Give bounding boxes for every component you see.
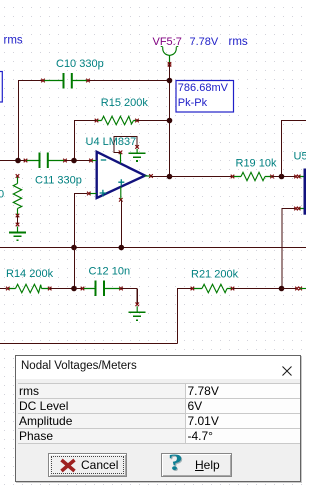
svg-text:R19 10k: R19 10k: [236, 158, 277, 170]
probe reading 7.78V rms: [190, 36, 248, 48]
dialog close button: [282, 364, 293, 382]
wire op-amp output to node: [151, 176, 170, 178]
clipped blue box at left edge: [0, 72, 2, 103]
wire R21 to U5 plus node: [233, 288, 282, 290]
capacitor C11: [24, 153, 82, 187]
svg-text:786.68mV: 786.68mV: [178, 82, 229, 94]
wire U5 plus input: [282, 209, 296, 289]
wire left stub to node A: [0, 160, 18, 162]
help button: [161, 453, 232, 477]
wire R14 to plus node: [50, 288, 74, 290]
wire node A to C11: [18, 160, 25, 162]
wire R19 to U5 minus node: [272, 176, 295, 178]
junction node U5 minus: [279, 174, 285, 180]
junction node output: [167, 174, 173, 180]
svg-text:R15 200k: R15 200k: [101, 97, 149, 109]
wire minus node to op-amp: [74, 160, 91, 162]
dialog title bar: [16, 356, 300, 379]
wire probe vertical: [169, 63, 171, 176]
svg-text:rms: rms: [229, 36, 248, 48]
svg-text:U5: U5: [294, 151, 307, 163]
svg-text:Pk-Pk: Pk-Pk: [178, 97, 208, 109]
junction node A: [15, 158, 21, 164]
ground (op-amp power): [129, 145, 146, 161]
wire to C10 left: [18, 80, 43, 82]
wire output node to R19: [170, 176, 233, 178]
probe hook: [161, 46, 178, 62]
measurement box 786.68mV Pk-Pk: [176, 81, 234, 113]
op-amp U4 pin stubs: [89, 153, 151, 200]
resistor R15: [95, 97, 149, 125]
wire horizontal bus: [0, 247, 306, 249]
wire feedback vertical: [282, 121, 307, 177]
probe pin x marks: [168, 62, 172, 66]
wire R15 left to node: [74, 121, 96, 161]
dialog Nodal Voltages/Meters: [15, 355, 301, 482]
svg-text:rms: rms: [4, 35, 23, 47]
resistor R19: [231, 158, 277, 181]
junction bus/plus-input: [71, 245, 77, 251]
dialog table: [18, 383, 300, 444]
wire resistor to ground: [17, 216, 19, 225]
label rms (top left): [4, 35, 23, 47]
svg-text:7.78V: 7.78V: [190, 36, 219, 48]
op-amp U5 (clipped): [294, 151, 308, 215]
op-amp U4: [86, 136, 146, 198]
wire left vertical: [18, 80, 20, 160]
wire C10 right to probe node: [88, 80, 170, 82]
resistor R21: [191, 269, 239, 293]
junction bus/power: [119, 245, 125, 251]
capacitor C12: [74, 266, 130, 297]
svg-text:U4 LM837: U4 LM837: [86, 136, 137, 148]
svg-text:R21 200k: R21 200k: [191, 269, 239, 281]
op-amp pin x marks: [87, 151, 153, 202]
ground (C12): [129, 303, 146, 321]
svg-text:C11 330p: C11 330p: [35, 175, 82, 187]
probe label VF5:7: [153, 36, 182, 48]
ground (left): [9, 223, 26, 241]
wire R15 right to probe vertical: [137, 120, 170, 122]
wire C12 to ground: [121, 289, 137, 305]
svg-text:0: 0: [0, 189, 4, 201]
wire R21 feed from left: [0, 288, 192, 344]
junction node U5 plus: [279, 286, 285, 292]
svg-text:C10 330p: C10 330p: [56, 58, 104, 70]
capacitor C10: [41, 58, 104, 89]
resistor R? vertical (clipped label 0): [0, 174, 22, 217]
svg-text:C12 10n: C12 10n: [89, 266, 131, 278]
cancel button: [48, 453, 127, 477]
junction node minus input: [71, 158, 77, 164]
wire op-amp bottom power down: [120, 200, 122, 248]
wire op-amp top power to ground: [114, 136, 137, 152]
junction node plus/R14/C12: [71, 286, 77, 292]
resistor R14: [0, 268, 54, 293]
junction node (R15/probe): [167, 118, 173, 124]
junction node (probe/C10): [167, 78, 173, 84]
wire C11 to minus node: [65, 160, 74, 162]
svg-text:R14 200k: R14 200k: [6, 268, 54, 280]
wire op-amp plus input: [74, 194, 88, 289]
wire stub right (off screen component): [282, 287, 307, 291]
